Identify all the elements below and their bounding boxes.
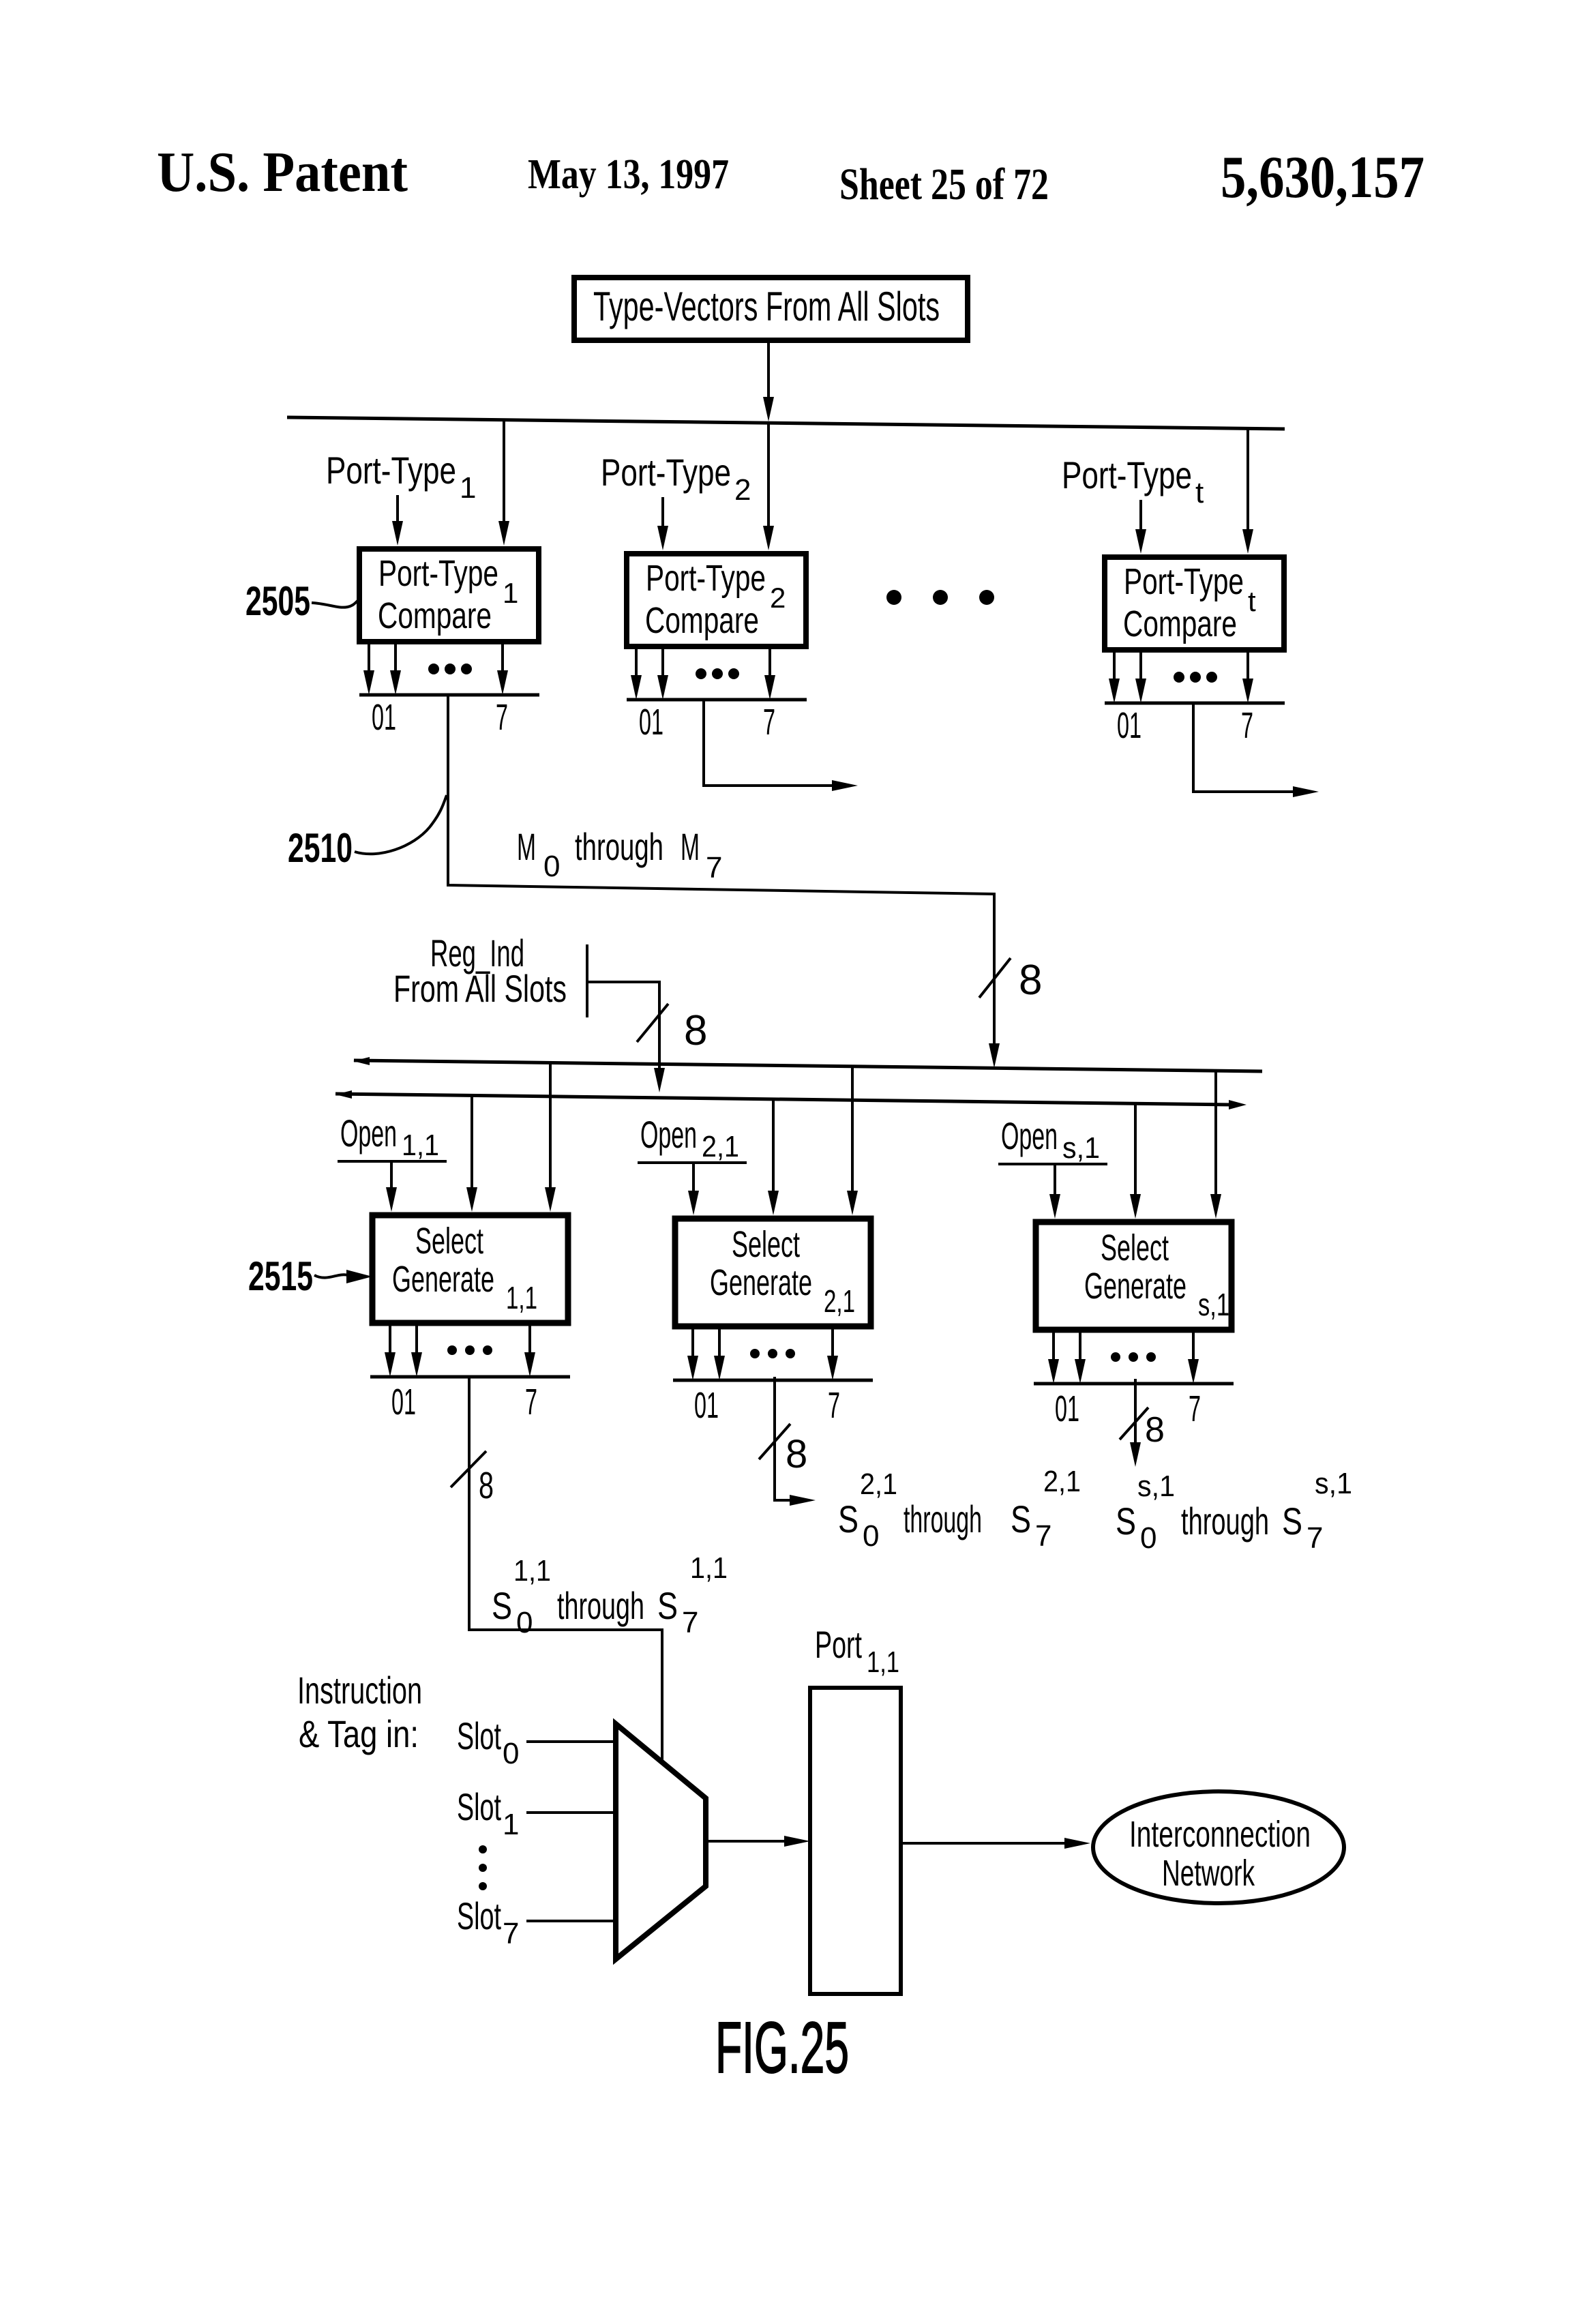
wire: Select Generate s,1 output arrow 1 [1048, 1330, 1059, 1384]
svg-text:Generate: Generate [392, 1259, 494, 1300]
wire: top horizontal bus [287, 417, 1285, 429]
wire: Select Generate 1,1 output arrow 2 [411, 1323, 422, 1377]
svg-text:Port-Type: Port-Type [378, 553, 498, 594]
svg-text:7: 7 [525, 1382, 537, 1422]
svg-text:through: through [904, 1498, 982, 1540]
wire: Port-Type Compare t output line [1105, 702, 1285, 705]
wire: Select Generate 1,1 output line [370, 1375, 570, 1379]
svg-text:S: S [657, 1584, 678, 1627]
wire: Port-Type Compare 2 output arrow 1 [631, 646, 642, 700]
svg-text:S: S [1116, 1500, 1136, 1543]
label: S0 s,1 through S7 s,1 [1116, 1467, 1352, 1555]
svg-text:0: 0 [516, 1606, 533, 1639]
svg-text:Port-Type: Port-Type [646, 558, 766, 599]
dots: Port-Type Compare 2 outputs ellipsis [696, 668, 739, 679]
wire: upper bus to Select Generate 1,1 arrow [545, 1063, 556, 1212]
slash: bus width mark on M wire [979, 958, 1011, 998]
svg-text:Slot: Slot [457, 1894, 501, 1937]
svg-text:Open: Open [640, 1113, 697, 1156]
wire: Open s,1 underline [998, 1163, 1107, 1165]
wire: Open 1,1 underline [338, 1160, 447, 1163]
svg-text:1: 1 [503, 577, 518, 609]
svg-text:7: 7 [706, 851, 722, 884]
wire: Open 2,1 underline [638, 1161, 747, 1164]
svg-text:2: 2 [770, 582, 786, 614]
svg-text:t: t [1248, 585, 1256, 617]
wire: Select Generate s,1 output line [1034, 1382, 1234, 1386]
wire: bus to Port-Type Compare 2 arrow [763, 423, 774, 550]
svg-text:2: 2 [734, 473, 751, 507]
svg-text:M: M [517, 825, 536, 868]
svg-text:2505: 2505 [245, 578, 310, 624]
svg-text:S: S [1011, 1498, 1031, 1540]
wire: Reg_Ind tick [586, 944, 588, 1017]
wire: Port-Type Compare 1 output arrow 1 [363, 642, 374, 695]
wire: S 2,1 output elbow [775, 1377, 790, 1500]
svg-text:Slot: Slot [457, 1714, 501, 1757]
wire: S s,1 output arrow [1130, 1439, 1141, 1467]
svg-text:8: 8 [786, 1432, 807, 1476]
wire: upper bus to Select Generate 2,1 arrow [847, 1066, 858, 1215]
svg-text:1,1: 1,1 [402, 1129, 439, 1162]
svg-text:s,1: s,1 [1137, 1470, 1175, 1503]
svg-text:Select: Select [732, 1224, 800, 1265]
wire: lower bus to Select Generate s,1 arrow [1130, 1102, 1141, 1219]
wire: Open 1,1 arrow [386, 1161, 397, 1212]
svg-text:through: through [1181, 1500, 1269, 1543]
wire: compare t output arrow [1292, 786, 1319, 797]
wire: Port-Type 1 input arrow [392, 495, 403, 546]
wire: Slot 7 input line [526, 1920, 616, 1922]
svg-text:7: 7 [1035, 1519, 1051, 1553]
svg-text:t: t [1195, 476, 1204, 509]
svg-text:1: 1 [460, 471, 476, 505]
svg-text:Compare: Compare [645, 600, 759, 641]
dots: Select Generate 2,1 outputs ellipsis [750, 1349, 795, 1358]
svg-text:FIG.25: FIG.25 [715, 2008, 849, 2088]
wire: S 1,1 select wire to mux [469, 1377, 662, 1761]
wire: Port-Type t input arrow [1135, 500, 1146, 554]
svg-text:8: 8 [1019, 957, 1042, 1004]
mux multiplexer trapezoid [616, 1724, 706, 1959]
block: Port-Type Compare 1 [359, 549, 539, 642]
svg-text:Port-Type: Port-Type [1062, 453, 1192, 496]
block: Port-Type Compare t [1105, 557, 1284, 650]
svg-text:U.S. Patent: U.S. Patent [157, 140, 408, 204]
wire: lower select bus left end arrow [335, 1090, 352, 1099]
svg-text:7: 7 [503, 1917, 519, 1950]
svg-text:2,1: 2,1 [824, 1283, 855, 1319]
svg-text:Port-Type: Port-Type [1124, 561, 1244, 602]
svg-text:1,1: 1,1 [506, 1280, 537, 1315]
wire: Select Generate 2,1 output line [673, 1379, 873, 1382]
svg-text:2,1: 2,1 [702, 1130, 739, 1163]
svg-text:Instruction: Instruction [297, 1669, 422, 1712]
wire: Port-Type Compare t output arrow 1 [1109, 650, 1120, 703]
dots: ellipsis between compare blocks [886, 590, 994, 605]
wire: Port-Type Compare 2 output line [627, 698, 807, 702]
svg-text:01: 01 [391, 1382, 416, 1422]
wire: Select Generate 2,1 output arrow 1 [687, 1326, 698, 1380]
svg-text:Port-Type: Port-Type [601, 451, 731, 494]
wire: Select Generate 1,1 output arrow 3 [524, 1323, 535, 1377]
svg-text:5,630,157: 5,630,157 [1221, 145, 1424, 211]
wire: lower bus to Select Generate 1,1 arrow [466, 1096, 477, 1212]
svg-text:Slot: Slot [457, 1785, 501, 1828]
wire: Port-Type Compare 1 output line [359, 694, 539, 697]
wire: compare 2 output arrow [829, 780, 858, 791]
wire: Open 2,1 arrow [688, 1163, 699, 1215]
wire: M bus arrow into upper bus [989, 1037, 1000, 1068]
svg-text:7: 7 [1307, 1521, 1323, 1555]
wire: S 2,1 output arrow [787, 1495, 816, 1506]
svg-text:& Tag in:: & Tag in: [299, 1712, 419, 1755]
svg-text:01: 01 [694, 1385, 719, 1426]
wire: upper bus to Select Generate s,1 arrow [1210, 1069, 1221, 1219]
svg-text:7: 7 [763, 702, 775, 743]
svg-text:S: S [1282, 1500, 1302, 1543]
svg-text:1: 1 [503, 1808, 519, 1841]
dots: slot ellipsis vertical [479, 1845, 487, 1890]
wire: Reg_Ind arrow into lower bus [654, 1061, 665, 1092]
svg-text:8: 8 [684, 1007, 707, 1054]
block: Interconnection Network ellipse [1093, 1791, 1344, 1903]
wire: type-vectors to bus arrow [763, 340, 774, 421]
svg-text:through: through [557, 1584, 644, 1627]
svg-text:1,1: 1,1 [690, 1551, 728, 1585]
dots: Port-Type Compare 1 outputs ellipsis [428, 664, 472, 674]
svg-text:Sheet 25 of 72: Sheet 25 of 72 [839, 160, 1049, 209]
wire: 2510 leader curve [355, 795, 447, 854]
svg-text:S: S [838, 1498, 859, 1540]
wire: Select Generate 2,1 output arrow 2 [714, 1326, 725, 1380]
svg-text:Open: Open [340, 1112, 397, 1154]
svg-text:2515: 2515 [248, 1253, 313, 1299]
block: Select Generate s,1 [1036, 1222, 1232, 1330]
wire: Port-Type Compare 2 output arrow 3 [764, 646, 775, 700]
svg-text:M: M [681, 825, 700, 868]
svg-text:0: 0 [1140, 1521, 1156, 1555]
wire: bus to Port-Type Compare t arrow [1242, 429, 1253, 554]
wire: Port-Type 2 input arrow [657, 497, 668, 550]
wire: Port-Type Compare 1 output arrow 2 [390, 642, 401, 695]
wire: Select Generate s,1 output arrow 3 [1188, 1330, 1199, 1384]
wire: Port output to network [901, 1838, 1090, 1849]
svg-text:7: 7 [1189, 1388, 1201, 1429]
svg-text:Compare: Compare [378, 595, 492, 636]
svg-text:0: 0 [863, 1519, 879, 1553]
wire: Reg_Ind to bus [587, 982, 659, 1064]
wire: Open s,1 arrow [1049, 1164, 1060, 1219]
svg-text:Compare: Compare [1123, 604, 1237, 644]
wire: upper select bus [354, 1060, 1262, 1071]
svg-text:May 13, 1997: May 13, 1997 [528, 151, 729, 198]
wire: Port-Type Compare 2 output arrow 2 [657, 646, 668, 700]
wire: bus to Port-Type Compare 1 arrow [498, 420, 509, 546]
svg-text:Select: Select [415, 1221, 483, 1262]
svg-text:Generate: Generate [1084, 1266, 1186, 1307]
svg-text:7: 7 [496, 697, 508, 738]
wire: Slot 0 input line [526, 1740, 616, 1743]
wire: Select Generate 1,1 output arrow 1 [385, 1323, 395, 1377]
wire: Select Generate 2,1 output arrow 3 [827, 1326, 838, 1380]
wire: compare t output elbow [1193, 702, 1296, 792]
svg-text:1,1: 1,1 [867, 1645, 899, 1679]
wire: Port-Type Compare 1 output arrow 3 [497, 642, 508, 695]
svg-text:Type-Vectors From All Slots: Type-Vectors From All Slots [593, 284, 940, 329]
svg-text:s,1: s,1 [1198, 1287, 1229, 1322]
svg-text:through: through [575, 825, 663, 868]
wire: mux output to Port [706, 1836, 810, 1847]
wire: 2515 leader arrow [314, 1275, 348, 1277]
svg-text:01: 01 [1117, 705, 1141, 746]
wire: Port-Type Compare t output arrow 3 [1242, 650, 1253, 703]
svg-text:0: 0 [503, 1737, 519, 1770]
svg-text:2510: 2510 [288, 825, 353, 871]
svg-text:8: 8 [1145, 1410, 1165, 1450]
label: S0 2,1 through S7 2,1 [838, 1465, 1081, 1553]
svg-text:7: 7 [682, 1606, 698, 1639]
svg-text:7: 7 [828, 1385, 840, 1426]
dots: Select Generate s,1 outputs ellipsis [1111, 1352, 1156, 1362]
wire: upper select bus left end arrow [353, 1057, 370, 1065]
dots: Select Generate 1,1 outputs ellipsis [447, 1345, 492, 1355]
block: Port 1,1 [810, 1688, 901, 1994]
block: Select Generate 1,1 [372, 1215, 568, 1323]
wire: Select Generate s,1 output arrow 2 [1075, 1330, 1086, 1384]
wire: lower select bus [335, 1094, 1232, 1105]
wire: S s,1 output [1134, 1379, 1137, 1442]
wire: 2505 leader squiggle [312, 599, 360, 608]
svg-text:s,1: s,1 [1315, 1467, 1352, 1500]
svg-text:Generate: Generate [710, 1262, 812, 1303]
svg-text:01: 01 [1055, 1388, 1079, 1429]
block: Select Generate 2,1 [675, 1219, 871, 1326]
label: S0 1,1 through S7 1,1 [492, 1551, 728, 1639]
svg-text:Interconnection: Interconnection [1129, 1814, 1311, 1855]
label: M0 through M7 [517, 825, 722, 884]
svg-text:S: S [492, 1584, 512, 1627]
svg-text:8: 8 [479, 1464, 494, 1506]
svg-text:Network: Network [1162, 1853, 1255, 1894]
svg-text:2,1: 2,1 [860, 1468, 897, 1501]
wire: Slot 1 input line [526, 1811, 616, 1814]
slash: width mark on S 2,1 wire [759, 1424, 790, 1459]
svg-text:Port-Type: Port-Type [326, 449, 456, 492]
wire: M0-M7 bus wire [448, 695, 994, 1039]
slash: bus width mark on Reg_Ind wire [637, 1004, 668, 1042]
block: Port-Type Compare 2 [627, 554, 806, 646]
svg-text:Open: Open [1001, 1114, 1058, 1157]
slash: width mark on S 1,1 wire [451, 1451, 486, 1487]
svg-text:2,1: 2,1 [1043, 1465, 1081, 1498]
svg-text:0: 0 [543, 850, 560, 883]
svg-text:s,1: s,1 [1062, 1131, 1100, 1165]
svg-text:01: 01 [639, 702, 663, 743]
wire: lower bus to Select Generate 2,1 arrow [768, 1099, 779, 1215]
dots: Port-Type Compare t outputs ellipsis [1174, 672, 1217, 683]
svg-text:01: 01 [372, 697, 396, 738]
wire: Port-Type Compare t output arrow 2 [1135, 650, 1146, 703]
svg-text:1,1: 1,1 [513, 1554, 551, 1588]
wire: compare 2 output elbow [704, 698, 833, 786]
svg-text:Port: Port [815, 1623, 862, 1666]
wire: lower select bus right end arrow [1229, 1100, 1247, 1109]
slash: width mark on S s,1 wire [1120, 1407, 1148, 1440]
svg-text:From All Slots: From All Slots [393, 967, 567, 1010]
block: Type-Vectors From All Slots [574, 278, 968, 340]
svg-text:7: 7 [1241, 705, 1253, 746]
svg-text:Select: Select [1101, 1227, 1169, 1268]
